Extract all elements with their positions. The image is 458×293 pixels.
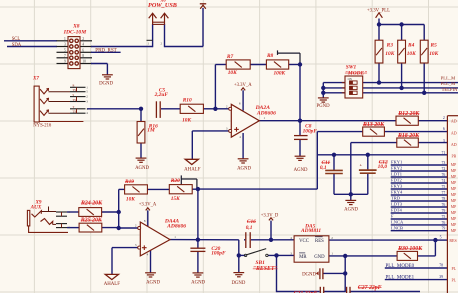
svg-text:+3.3V_D: +3.3V_D (261, 213, 279, 218)
svg-text:79: 79 (442, 209, 446, 213)
svg-text:77: 77 (442, 191, 446, 195)
svg-text:76: 76 (442, 203, 446, 207)
svg-text:6: 6 (443, 127, 445, 131)
svg-text:R25 20K: R25 20K (80, 218, 103, 224)
svg-text:PL: PL (451, 278, 456, 283)
svg-text:8: 8 (82, 54, 84, 58)
svg-text:MP: MP (451, 187, 457, 191)
svg-text:TS: TS (73, 88, 77, 92)
svg-text:15K: 15K (171, 196, 180, 202)
svg-text:+: + (360, 163, 363, 168)
svg-text:PLL_M: PLL_M (441, 75, 456, 80)
svg-text:FDT4: FDT4 (391, 208, 403, 213)
svg-text:10: 10 (82, 60, 86, 64)
svg-text:R20: R20 (170, 178, 180, 184)
svg-text:R8: R8 (266, 53, 274, 59)
svg-text:76: 76 (442, 221, 446, 225)
svg-text:R4: R4 (407, 43, 415, 49)
svg-text:10,0: 10,0 (378, 164, 388, 170)
svg-text:76: 76 (442, 173, 446, 177)
svg-text:9: 9 (64, 60, 66, 64)
svg-text:C27 22pF: C27 22pF (358, 285, 382, 291)
svg-text:10K: 10K (407, 51, 416, 57)
svg-text:IDC-10M: IDC-10M (63, 29, 87, 35)
svg-text:5: 5 (64, 48, 66, 52)
svg-text:75: 75 (442, 215, 446, 219)
svg-text:R5: R5 (430, 43, 438, 49)
svg-text:+3.3V_A: +3.3V_A (139, 203, 157, 208)
svg-text:2: 2 (331, 236, 333, 240)
svg-text:PLL_M: PLL_M (441, 81, 456, 86)
svg-text:4: 4 (290, 236, 292, 240)
svg-text:MP: MP (451, 175, 457, 179)
svg-text:AHALF: AHALF (184, 167, 201, 172)
svg-text:4: 4 (82, 43, 84, 47)
svg-text:3: 3 (443, 139, 445, 143)
svg-text:X7: X7 (32, 75, 39, 81)
svg-text:PGND: PGND (316, 104, 330, 109)
svg-text:PLL_MODE0: PLL_MODE0 (386, 264, 415, 269)
svg-text:AD: AD (451, 130, 457, 135)
svg-text:AGND: AGND (135, 166, 149, 171)
svg-text:3: 3 (64, 43, 66, 47)
svg-text:DGND: DGND (231, 281, 245, 286)
svg-text:FKY4: FKY4 (391, 190, 403, 195)
svg-text:TELFIN: TELFIN (442, 87, 458, 92)
svg-text:NYS-216: NYS-216 (33, 123, 52, 128)
svg-text:PL: PL (451, 266, 456, 271)
svg-text:5: 5 (440, 236, 442, 240)
svg-text:R19: R19 (124, 179, 134, 185)
svg-text:C16: C16 (247, 219, 256, 225)
svg-text:R3: R3 (386, 43, 394, 49)
svg-text:73: 73 (442, 161, 446, 165)
svg-text:78: 78 (442, 197, 446, 201)
svg-text:AD: AD (451, 142, 457, 147)
svg-text:1: 1 (64, 37, 66, 41)
svg-text:MP: MP (451, 217, 457, 221)
svg-text:100pF: 100pF (211, 251, 226, 257)
svg-text:AD8606: AD8606 (256, 110, 276, 116)
svg-text:FKY1: FKY1 (391, 160, 402, 165)
svg-text:39: 39 (439, 275, 443, 279)
svg-text:0,1: 0,1 (246, 225, 253, 231)
svg-text:MP: MP (451, 169, 457, 173)
svg-text:PLL_MODE1: PLL_MODE1 (386, 275, 415, 280)
svg-text:RES: RES (449, 238, 456, 243)
svg-text:10K: 10K (385, 51, 394, 57)
svg-text:10K: 10K (126, 197, 135, 203)
svg-text:10K: 10K (182, 117, 191, 123)
svg-text:PRD_RST: PRD_RST (95, 49, 116, 54)
svg-text:AHALF: AHALF (104, 282, 121, 287)
svg-text:0,1: 0,1 (320, 165, 327, 171)
svg-text:T: T (73, 105, 75, 109)
svg-text:LNCB: LNCB (391, 225, 403, 230)
svg-text:R7: R7 (226, 54, 234, 60)
svg-text:R13 20K: R13 20K (362, 122, 385, 128)
svg-text:GND: GND (314, 255, 325, 260)
svg-text:TS: TS (73, 110, 77, 114)
svg-text:78: 78 (439, 264, 443, 268)
svg-text:MP: MP (451, 211, 457, 215)
svg-text:LDT3: LDT3 (391, 202, 403, 207)
svg-text:79: 79 (442, 227, 446, 231)
svg-text:X6: X6 (159, 0, 166, 3)
svg-text:AGND: AGND (237, 167, 251, 172)
svg-text:FKY3: FKY3 (391, 184, 403, 189)
svg-text:100pF: 100pF (303, 129, 318, 135)
svg-text:R: R (73, 84, 75, 88)
svg-text:R24 20K: R24 20K (80, 200, 103, 206)
svg-text:POW_USB: POW_USB (148, 2, 177, 9)
svg-text:MP: MP (451, 163, 457, 167)
svg-text:VCC: VCC (299, 239, 309, 244)
svg-text:75: 75 (442, 185, 446, 189)
svg-text:10K: 10K (429, 51, 438, 57)
svg-text:R10: R10 (182, 98, 192, 104)
svg-text:DGND: DGND (99, 82, 113, 87)
svg-text:"RESET": "RESET" (253, 266, 278, 272)
svg-text:1M: 1M (147, 128, 155, 134)
svg-text:10K: 10K (228, 70, 237, 76)
svg-text:2,2uF: 2,2uF (154, 92, 169, 98)
svg-text:2: 2 (443, 116, 445, 120)
svg-text:6: 6 (82, 48, 84, 52)
svg-text:R12 20K: R12 20K (397, 111, 420, 117)
svg-text:AGND: AGND (344, 207, 358, 212)
svg-text:2: 2 (82, 37, 84, 41)
svg-text:LNCA: LNCA (391, 220, 404, 225)
svg-text:+3.3V_PLL: +3.3V_PLL (367, 8, 390, 13)
svg-text:"MODE": "MODE" (345, 70, 367, 76)
svg-text:7: 7 (64, 54, 66, 58)
svg-text:SCL: SCL (12, 37, 21, 42)
svg-text:MP: MP (451, 229, 457, 233)
svg-text:MP: MP (451, 223, 457, 227)
svg-text:FKY2: FKY2 (391, 166, 402, 171)
svg-text:R30 100K: R30 100K (397, 246, 423, 252)
svg-text:MP: MP (451, 199, 457, 203)
svg-text:74: 74 (442, 179, 446, 183)
svg-text:3: 3 (290, 252, 292, 256)
svg-text:DGND: DGND (302, 273, 316, 278)
svg-text:1: 1 (331, 252, 333, 256)
svg-text:TS: TS (73, 98, 77, 102)
svg-text:ADM811: ADM811 (300, 228, 321, 234)
svg-text:FDT2: FDT2 (391, 178, 402, 183)
svg-text:AD: AD (451, 119, 457, 124)
svg-text:AGND: AGND (146, 280, 160, 285)
svg-text:+3.3V_A: +3.3V_A (234, 83, 252, 88)
svg-text:RES: RES (315, 239, 324, 244)
svg-text:R18 20K: R18 20K (397, 133, 420, 139)
svg-text:AGND: AGND (294, 168, 308, 173)
svg-text:MP: MP (451, 193, 457, 197)
svg-text:100K: 100K (273, 70, 285, 76)
svg-text:PB: PB (451, 154, 456, 158)
svg-text:AGND: AGND (191, 280, 205, 285)
svg-text:SDA: SDA (12, 43, 22, 48)
svg-text:71: 71 (442, 151, 446, 155)
svg-text:MP: MP (451, 181, 457, 185)
svg-text:AD8606: AD8606 (166, 224, 186, 230)
svg-text:TRD: TRD (391, 196, 401, 201)
svg-text:72: 72 (442, 167, 446, 171)
svg-text:MP: MP (451, 205, 457, 209)
svg-text:LDT1: LDT1 (391, 172, 402, 177)
svg-text:MR: MR (299, 255, 307, 260)
svg-text:AUX: AUX (30, 205, 42, 211)
